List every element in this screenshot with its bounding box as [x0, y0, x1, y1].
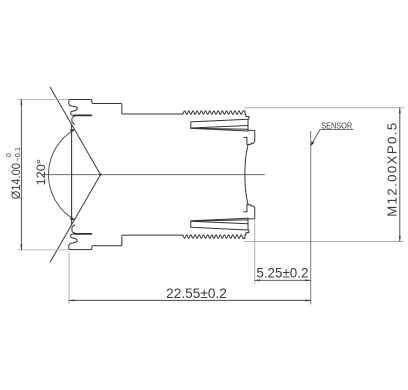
extension line 22.55 left: [68, 252, 70, 304]
thread end block: [243, 111, 249, 119]
sensor leader arrow: [311, 141, 314, 146]
rear face: [245, 145, 248, 175]
arc arrow upper: [70, 129, 75, 133]
front bezel tail: [72, 116, 75, 124]
knurl band top edge: [191, 119, 248, 122]
svg-text:120°: 120°: [34, 159, 48, 186]
extension line 5.25 left: [254, 221, 256, 284]
knurl band bottom edge: [192, 128, 248, 131]
knurl band fan line B: [191, 128, 248, 129]
knurl band fan line A: [191, 221, 248, 224]
knurl band fan line B: [191, 220, 248, 221]
rear face: [245, 175, 248, 205]
thread end block: [243, 230, 249, 238]
dimension line 22.55: [69, 299, 311, 301]
knurl band top edge: [191, 227, 248, 230]
sensor label underline: [320, 128, 353, 130]
front bezel groove: [69, 104, 77, 116]
extension line M12 top: [245, 107, 405, 109]
front bezel tail: [72, 225, 75, 233]
extension line M12 bottom: [245, 240, 405, 242]
lens body front cap and barrel outline: [69, 235, 183, 250]
field-of-view ray upper: [50, 87, 100, 174]
arrow dia14 bottom: [20, 244, 22, 249]
knurl band left cap: [190, 122, 192, 128]
wire: optical axis centerline: [42, 174, 265, 176]
knurl band bottom edge: [192, 218, 248, 221]
lens lip edge lower (thick): [75, 233, 92, 235]
dimension line 5.25: [255, 279, 311, 281]
flange inner corner: [244, 137, 247, 145]
knurl band right cap: [247, 119, 249, 131]
extension line dia14 top: [18, 98, 69, 100]
flange inner corner: [244, 204, 247, 212]
thread M12 wave: [183, 111, 244, 114]
knurl band right cap: [247, 218, 249, 230]
sensor leader line: [312, 129, 321, 144]
arrow 22.55 right: [305, 299, 310, 301]
dimension line M12: [399, 108, 401, 242]
field-of-view ray lower: [50, 175, 100, 262]
svg-text:M12.00XP0.5: M12.00XP0.5: [384, 123, 399, 217]
thread M12 wave: [183, 235, 244, 238]
svg-text:5.25±0.2: 5.25±0.2: [256, 265, 308, 280]
extension line dia14 bottom: [18, 249, 69, 251]
mount flange: [248, 130, 255, 145]
front bezel groove: [69, 234, 77, 246]
arrow M12 bottom: [399, 236, 401, 241]
dimension line dia14: [20, 99, 22, 249]
knurl band left cap: [190, 221, 192, 227]
120 degree dimension arc: [49, 130, 75, 220]
arrow 5.25 right: [305, 279, 310, 281]
arrow 5.25 left: [255, 279, 260, 281]
lens body front cap and barrel outline: [69, 100, 183, 115]
dome chord line: [71, 124, 73, 224]
svg-text:22.55±0.2: 22.55±0.2: [166, 286, 227, 301]
arrow 22.55 left: [69, 299, 74, 301]
sensor plane line: [310, 132, 312, 305]
arrow dia14 top: [20, 99, 22, 104]
lens lip edge upper (thick): [75, 114, 92, 116]
arc arrow lower: [70, 216, 75, 220]
arrow M12 top: [399, 108, 401, 113]
apex junction dot: [99, 173, 101, 175]
mount flange: [248, 204, 255, 219]
knurl band fan line A: [191, 126, 248, 129]
